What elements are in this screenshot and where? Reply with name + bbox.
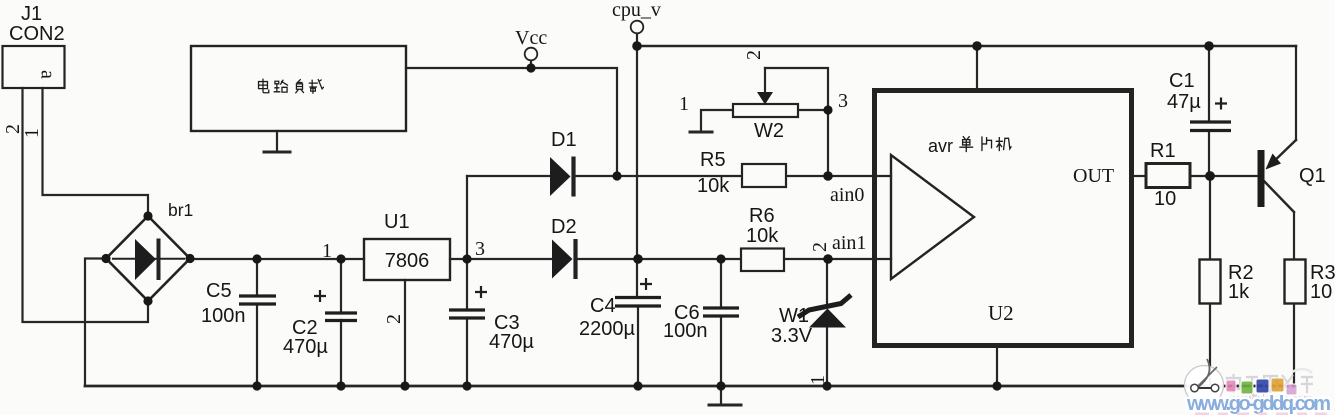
svg-text:1: 1 <box>21 128 43 138</box>
svg-text:U2: U2 <box>988 301 1014 325</box>
svg-text:avr: avr <box>928 136 953 156</box>
svg-text:3.3V: 3.3V <box>771 325 813 347</box>
svg-text:2200µ: 2200µ <box>579 318 635 340</box>
svg-text:2: 2 <box>809 242 831 252</box>
svg-text:470µ: 470µ <box>283 336 328 358</box>
svg-text:R5: R5 <box>700 149 726 171</box>
svg-text:cpu_v: cpu_v <box>612 0 661 21</box>
svg-text:2: 2 <box>743 50 765 60</box>
svg-text:47µ: 47µ <box>1167 91 1201 113</box>
svg-text:J1: J1 <box>21 3 42 25</box>
svg-text:D2: D2 <box>551 216 577 238</box>
svg-text:C5: C5 <box>206 280 232 302</box>
svg-text:W1: W1 <box>779 305 809 327</box>
svg-text:3: 3 <box>838 90 848 112</box>
svg-text:10k: 10k <box>746 225 779 247</box>
svg-text:U1: U1 <box>384 211 410 233</box>
svg-text:OUT: OUT <box>1073 165 1114 187</box>
svg-text:1: 1 <box>322 240 332 262</box>
svg-text:100n: 100n <box>201 305 246 327</box>
svg-text:10: 10 <box>1310 281 1332 303</box>
svg-text:a: a <box>37 70 59 79</box>
svg-text:W2: W2 <box>754 120 784 142</box>
svg-text:br1: br1 <box>168 200 193 220</box>
svg-text:Vcc: Vcc <box>515 27 547 49</box>
svg-text:7806: 7806 <box>385 250 430 272</box>
svg-text:ain1: ain1 <box>832 232 866 254</box>
svg-text:R6: R6 <box>749 205 775 227</box>
svg-text:R1: R1 <box>1150 140 1176 162</box>
svg-text:10: 10 <box>1154 188 1176 210</box>
svg-text:D1: D1 <box>551 129 577 151</box>
svg-text:Q1: Q1 <box>1299 165 1326 187</box>
svg-text:10k: 10k <box>697 175 730 197</box>
svg-text:1: 1 <box>679 93 689 115</box>
svg-text:C4: C4 <box>590 295 616 317</box>
svg-text:ain0: ain0 <box>830 184 864 206</box>
svg-text:2: 2 <box>383 314 405 324</box>
svg-text:1: 1 <box>807 375 829 385</box>
svg-text:www.go-gddq.com: www.go-gddq.com <box>1186 393 1331 415</box>
svg-text:100n: 100n <box>663 320 708 342</box>
svg-text:1k: 1k <box>1228 281 1250 303</box>
svg-text:470µ: 470µ <box>489 331 534 353</box>
svg-text:C1: C1 <box>1169 70 1195 92</box>
svg-text:CON2: CON2 <box>9 23 65 45</box>
svg-text:3: 3 <box>475 238 485 260</box>
